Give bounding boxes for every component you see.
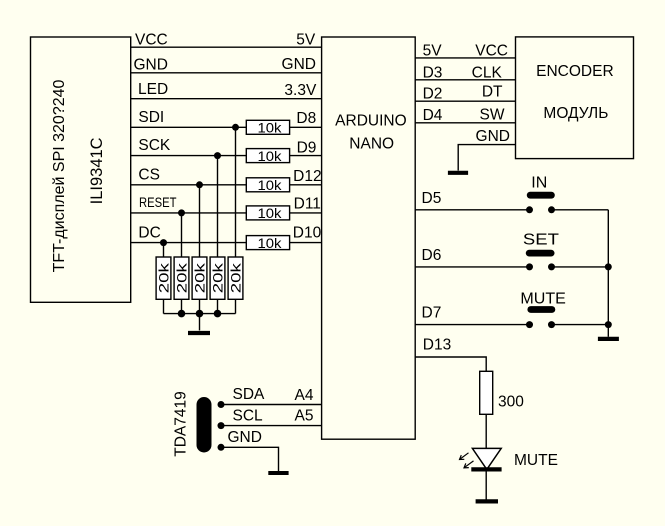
svg-text:D6: D6 — [422, 247, 442, 264]
ground symbol pullup bus — [188, 331, 210, 335]
Arduino Nano U2 box — [322, 37, 416, 439]
svg-text:IN: IN — [531, 175, 547, 192]
svg-text:20k: 20k — [209, 262, 225, 293]
svg-text:D12: D12 — [293, 168, 321, 185]
svg-text:300: 300 — [498, 394, 524, 411]
svg-text:CS: CS — [138, 166, 160, 183]
wire SCL-A5 — [221, 425, 322, 427]
wire pullup drop from DC — [163, 243, 165, 257]
svg-text:MUTE: MUTE — [514, 452, 558, 469]
wire D5 to button IN — [415, 209, 529, 211]
pushbutton S3 MUTE bar — [531, 306, 552, 313]
svg-text:ENCODER: ENCODER — [536, 63, 614, 80]
svg-text:MUTE: MUTE — [520, 290, 566, 307]
svg-text:D8: D8 — [296, 110, 316, 127]
resistor R4 10k (RESET/D11) — [246, 205, 289, 221]
encoder module U3 box — [516, 37, 634, 159]
pushbutton S3 contact left — [526, 321, 533, 328]
resistor R7 20k — [173, 257, 189, 299]
wire D2-DT — [415, 100, 515, 102]
resistor R3 10k (CS/D12) — [246, 177, 289, 193]
svg-text:A5: A5 — [295, 407, 314, 424]
svg-text:SDI: SDI — [138, 109, 164, 126]
wire RESET-D11 — [131, 212, 247, 214]
svg-text:ARDUINO: ARDUINO — [335, 113, 406, 130]
wire 5V-VCC encoder — [415, 57, 515, 59]
pin node TDA SCL — [218, 422, 225, 429]
svg-text:LED: LED — [138, 81, 168, 98]
wire D13 to resistor — [415, 357, 486, 371]
junction node on SDI — [232, 124, 239, 131]
svg-text:TFT-дисплей SPI 320?240: TFT-дисплей SPI 320?240 — [51, 79, 68, 272]
wire button SET to right rail — [552, 266, 609, 268]
resistor R5 10k (DC/D10) — [246, 235, 289, 251]
svg-text:D10: D10 — [293, 225, 322, 242]
wire TDA GND — [221, 447, 279, 471]
svg-text:SCL: SCL — [233, 408, 264, 425]
pin node TDA GND — [218, 444, 225, 451]
junction node bus 1 — [178, 310, 186, 318]
svg-text:GND: GND — [134, 57, 168, 74]
svg-text:5V: 5V — [296, 32, 316, 49]
resistor R10 20k — [227, 257, 243, 299]
wire D4-SW — [415, 122, 515, 124]
wire encoder GND — [458, 145, 515, 171]
pin node TDA SDA — [218, 401, 225, 408]
ground symbol LED — [476, 499, 498, 503]
svg-text:TDA7419: TDA7419 — [173, 391, 190, 456]
wire pullup drop from RESET — [181, 213, 183, 257]
svg-text:10k: 10k — [258, 120, 283, 136]
junction node on RESET — [178, 209, 185, 216]
svg-text:20k: 20k — [155, 262, 171, 293]
wire D3-CLK — [415, 79, 515, 81]
svg-text:10k: 10k — [258, 148, 283, 164]
wire SDA-A4 — [221, 404, 322, 406]
LED D1 triangle — [472, 448, 501, 469]
svg-text:GND: GND — [476, 128, 510, 145]
svg-text:D2: D2 — [423, 85, 443, 102]
junction node rail-SET — [605, 263, 612, 270]
svg-text:SDA: SDA — [233, 386, 266, 403]
resistor R2 10k (SCK/D9) — [246, 148, 289, 164]
svg-text:VCC: VCC — [135, 32, 168, 49]
svg-text:DT: DT — [482, 84, 503, 101]
pushbutton S2 contact left — [526, 263, 533, 270]
svg-text:A4: A4 — [295, 387, 314, 404]
svg-text:5V: 5V — [423, 43, 443, 60]
junction node bus 2 — [196, 310, 204, 318]
svg-text:RESET: RESET — [139, 194, 177, 210]
svg-text:GND: GND — [282, 56, 316, 73]
svg-text:VCC: VCC — [475, 43, 508, 60]
svg-text:D4: D4 — [423, 107, 443, 124]
wire CS-D12 — [131, 184, 247, 186]
svg-text:20k: 20k — [227, 262, 243, 293]
LED D1 cathode bar — [471, 467, 501, 471]
svg-text:D9: D9 — [297, 140, 317, 157]
wire pullup drop from SDI — [235, 127, 237, 257]
resistor R11 300 — [480, 371, 525, 414]
junction node on CS — [196, 181, 203, 188]
svg-text:SCK: SCK — [138, 137, 171, 154]
svg-text:20k: 20k — [191, 262, 207, 293]
junction node on SCK — [214, 152, 221, 159]
svg-text:МОДУЛЬ: МОДУЛЬ — [543, 105, 608, 122]
resistor R6 20k — [155, 257, 171, 299]
wire VCC-5V — [131, 46, 322, 48]
svg-text:D7: D7 — [422, 305, 442, 322]
junction node bus 3 — [214, 310, 222, 318]
svg-text:DC: DC — [138, 224, 160, 241]
wire DC-D10 — [131, 242, 247, 244]
wire LED-3.3V — [131, 98, 322, 100]
ground symbol TDA7419 — [268, 471, 288, 475]
pushbutton S2 contact right — [548, 263, 555, 270]
connector TDA7419 capsule — [197, 397, 212, 453]
pushbutton S3 contact right — [548, 321, 555, 328]
pushbutton S2 SET bar — [529, 250, 551, 257]
junction node rail-MUTE — [605, 321, 612, 328]
svg-text:3.3V: 3.3V — [284, 82, 317, 99]
wire buttons right rail — [607, 210, 609, 337]
wire bus to ground — [199, 314, 201, 331]
LED D1 emission arrow 1 — [460, 453, 469, 460]
wire GND-GND — [131, 72, 322, 74]
resistor R8 20k — [191, 257, 207, 299]
svg-text:SW: SW — [480, 107, 505, 124]
svg-text:GND: GND — [228, 429, 262, 446]
wire SCK-D9 — [131, 155, 247, 157]
TFT display module U1 box — [31, 37, 131, 302]
wire pullup drop from SCK — [217, 156, 219, 257]
wire button IN to right rail — [552, 209, 609, 211]
wire gnd bus — [164, 313, 236, 315]
pushbutton S1 contact right — [548, 206, 555, 213]
svg-text:D13: D13 — [423, 336, 451, 353]
wire SDI-D8 — [131, 126, 247, 128]
svg-text:10k: 10k — [258, 235, 283, 251]
junction node on DC — [160, 239, 167, 246]
resistor R1 10k (SDI/D8) — [246, 120, 289, 136]
svg-text:10k: 10k — [258, 177, 283, 193]
svg-text:NANO: NANO — [349, 136, 394, 153]
ground symbol buttons — [598, 337, 619, 341]
wire 20k bottoms to bus — [163, 299, 165, 313]
svg-text:20k: 20k — [173, 262, 189, 293]
wire pullup drop from CS — [199, 185, 201, 257]
wire D7 to button MUTE — [415, 324, 529, 326]
svg-text:SET: SET — [523, 232, 560, 249]
svg-text:D3: D3 — [423, 64, 443, 81]
pushbutton S1 IN bar — [530, 192, 551, 199]
pushbutton S1 contact left — [526, 206, 533, 213]
wire resistor to LED — [485, 414, 487, 448]
resistor R9 20k — [209, 257, 225, 299]
svg-text:D5: D5 — [422, 190, 442, 207]
svg-text:ILI9341C: ILI9341C — [88, 137, 106, 204]
svg-text:CLK: CLK — [472, 64, 503, 81]
wire button MUTE to right rail — [552, 324, 609, 326]
wire D6 to button SET — [415, 266, 529, 268]
svg-text:D11: D11 — [294, 196, 321, 213]
svg-text:10k: 10k — [258, 205, 283, 221]
ground symbol encoder — [448, 171, 468, 175]
wire LED to ground — [485, 469, 487, 499]
LED D1 emission arrow 2 — [464, 461, 474, 468]
